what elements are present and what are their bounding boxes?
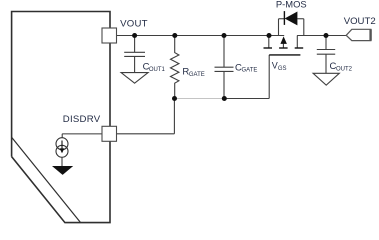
svg-text:VOUT: VOUT <box>120 19 148 30</box>
svg-text:VOUT2: VOUT2 <box>344 16 376 27</box>
svg-text:GS: GS <box>278 66 287 72</box>
svg-text:DISDRV: DISDRV <box>63 114 101 125</box>
svg-text:P-MOS: P-MOS <box>276 0 307 10</box>
svg-text:OUT1: OUT1 <box>149 67 166 73</box>
svg-text:GATE: GATE <box>189 72 205 78</box>
svg-text:GATE: GATE <box>242 68 258 74</box>
svg-text:OUT2: OUT2 <box>336 67 353 73</box>
